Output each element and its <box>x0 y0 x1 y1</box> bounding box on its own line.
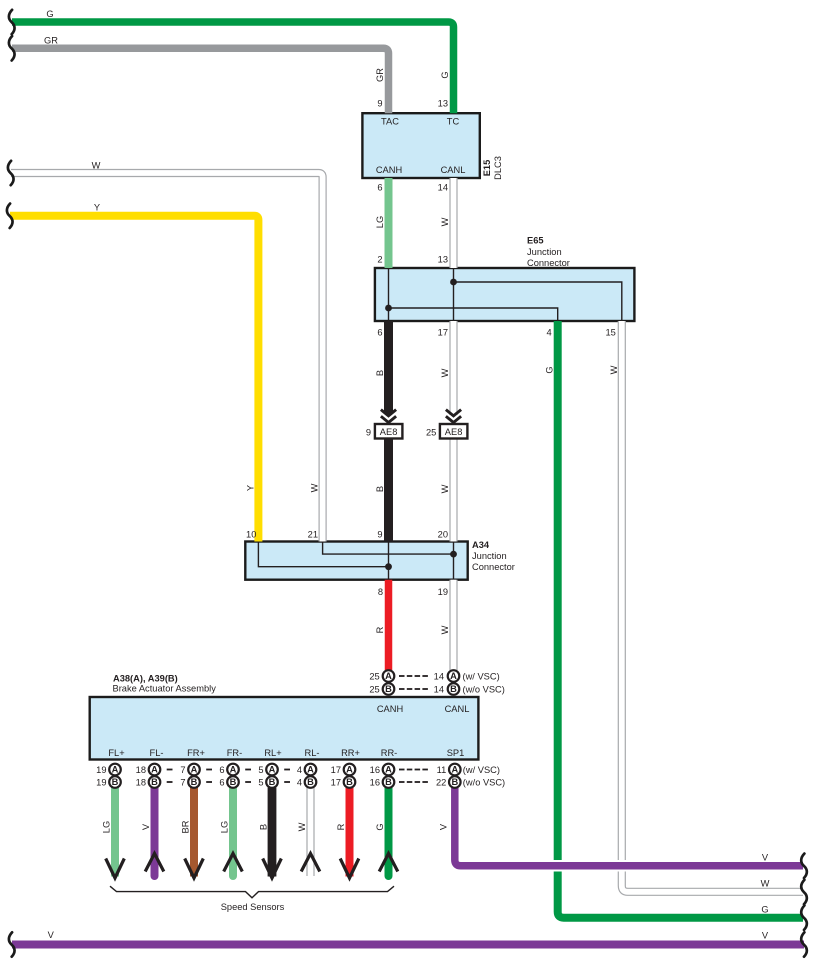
svg-text:A: A <box>450 671 457 681</box>
break symbol right (wire V bottom) <box>801 932 807 956</box>
svg-text:(w/ VSC): (w/ VSC) <box>463 765 500 775</box>
svg-text:19: 19 <box>96 765 106 775</box>
svg-text:4: 4 <box>297 765 302 775</box>
dash between RL+ and RL- (row A) <box>284 769 290 771</box>
E65 pin 4 <box>547 328 552 338</box>
terminal RR+ <box>341 748 360 758</box>
E65 pin 6 <box>377 328 382 338</box>
dash between FR+ and FR- (row B) <box>206 781 212 783</box>
svg-text:SP1: SP1 <box>447 748 465 758</box>
E15 terminal label CANL <box>441 165 466 175</box>
brake actuator pin 25 (row A) <box>369 672 379 682</box>
wire G (RR- speed sensor) <box>385 788 393 877</box>
terminal FR+ <box>187 748 205 758</box>
svg-text:11: 11 <box>437 765 447 775</box>
wire B (E65 pin 6 to shield connector AE8) <box>384 321 393 417</box>
svg-text:RR-: RR- <box>381 748 398 758</box>
label R rotated <box>375 626 385 633</box>
svg-text:A: A <box>385 671 392 681</box>
label B (AE8-A34) rotated <box>375 486 385 492</box>
E15 name DLC3 (rotated) <box>493 156 503 180</box>
pin 25-A circle (w/ VSC row) <box>383 670 395 682</box>
svg-text:18: 18 <box>136 778 146 788</box>
svg-text:Junction: Junction <box>527 247 562 257</box>
brake actuator pin 17-A (RR+) <box>331 764 356 776</box>
svg-text:17: 17 <box>331 765 341 775</box>
svg-text:TC: TC <box>447 117 460 127</box>
label wire V bottom left <box>48 930 55 940</box>
speed sensor arrow up (RR-) <box>379 854 398 872</box>
label G (RR-) rotated <box>375 823 385 830</box>
brake actuator pin 22-B (SP1) <box>436 776 461 788</box>
terminal RR- <box>381 748 398 758</box>
break symbol right (wire G) <box>801 906 807 930</box>
label W (A34-brake) rotated <box>440 625 450 634</box>
pin 14-B circle (w/o VSC row) <box>448 683 460 695</box>
speed sensor arrow down (RR+) <box>340 859 359 879</box>
brake actuator pin 14 (row B) <box>434 685 444 695</box>
speed sensor arrow up (FL-) <box>145 854 164 872</box>
svg-text:14: 14 <box>438 183 448 193</box>
wire G (top horizontal into E15 TC pin 13) <box>12 22 454 113</box>
break symbol left (wire V bottom) <box>9 932 15 956</box>
label W (left col) rotated <box>310 483 320 492</box>
svg-text:B: B <box>385 777 392 787</box>
brake actuator pin 4-B (RL-) <box>297 776 316 788</box>
A34 pin 9 <box>377 530 382 540</box>
svg-text:DLC3: DLC3 <box>493 156 503 180</box>
brake actuator terminal CANL <box>445 704 470 714</box>
terminal FR- <box>227 748 243 758</box>
shield arrow into AE8 (B wire, pin 9) <box>381 410 396 423</box>
variant note (w/o VSC) (lower row B) <box>463 778 505 788</box>
wire W (E15 CANL pin 14 to E65 pin 13) <box>449 178 457 268</box>
label wire V right <box>762 853 769 863</box>
shield connector AE8 (pin 9) box <box>375 424 403 439</box>
svg-text:W: W <box>761 878 770 888</box>
svg-text:Connector: Connector <box>472 562 515 572</box>
E65 name line 2 <box>527 258 570 268</box>
speed sensor arrow down (FL+) <box>106 859 125 879</box>
label wire G right <box>761 904 768 914</box>
svg-text:B: B <box>307 777 314 787</box>
break symbol right (wire V) <box>801 854 807 878</box>
svg-text:A: A <box>451 765 458 775</box>
svg-text:V: V <box>762 931 769 941</box>
junction connector A34 body <box>245 542 467 580</box>
svg-text:CANH: CANH <box>377 704 403 714</box>
break symbol left (wire G) <box>9 10 15 34</box>
svg-text:9: 9 <box>366 427 371 437</box>
svg-text:A: A <box>191 765 198 775</box>
label GR rotated <box>375 68 385 82</box>
svg-text:Connector: Connector <box>527 258 570 268</box>
label BR (FR+) rotated <box>181 820 191 833</box>
break symbol left (wire W) <box>8 161 14 185</box>
A34 name line 2 <box>472 562 515 572</box>
svg-text:Junction: Junction <box>472 551 507 561</box>
svg-text:E65: E65 <box>527 236 544 246</box>
svg-text:V: V <box>48 930 55 940</box>
brake actuator pin 19-B (FL+) <box>96 776 121 788</box>
brake actuator pin 16-A (RR-) <box>370 764 395 776</box>
svg-text:17: 17 <box>331 778 341 788</box>
svg-text:A: A <box>230 765 237 775</box>
A34 designator <box>472 540 490 550</box>
label R (RR+) rotated <box>336 823 346 830</box>
dashes between RR- and SP1 (row A) <box>399 769 428 771</box>
svg-text:9: 9 <box>377 530 382 540</box>
svg-text:B: B <box>451 777 458 787</box>
svg-text:RL+: RL+ <box>264 748 281 758</box>
label B (E65-AE8) rotated <box>375 370 385 376</box>
speed sensor arrow down (FR+) <box>185 859 204 879</box>
dashes between pin 25 and 14 (row A) <box>399 675 428 677</box>
svg-text:6: 6 <box>219 765 224 775</box>
break symbol left (wire Y) <box>7 204 13 228</box>
speed sensor arrow up (FR-) <box>224 854 243 872</box>
wire W (E65 pin 15 long run to right edge) <box>622 321 803 892</box>
E15 pin 14 <box>438 183 448 193</box>
wire V (bottom horizontal full width) <box>12 941 804 949</box>
svg-text:6: 6 <box>377 328 382 338</box>
svg-text:B: B <box>112 777 119 787</box>
A34 junction node pin9 bus <box>385 563 392 570</box>
brake actuator terminal CANH <box>377 704 403 714</box>
svg-text:V: V <box>762 853 769 863</box>
wire W (A34 pin 19 to brake actuator pin 14) <box>449 580 457 670</box>
E65 pin 2 <box>377 255 382 265</box>
svg-text:A38(A), A39(B): A38(A), A39(B) <box>113 674 178 684</box>
brake actuator assembly A38/A39 body <box>90 697 479 760</box>
svg-text:B: B <box>375 486 385 492</box>
label LG (FL+) rotated <box>102 821 112 833</box>
svg-text:13: 13 <box>438 255 448 265</box>
svg-text:Speed Sensors: Speed Sensors <box>221 902 285 912</box>
svg-text:R: R <box>336 823 346 830</box>
svg-text:14: 14 <box>434 685 444 695</box>
wire GR (top horizontal into E15 TAC pin 9) <box>12 48 389 113</box>
speed sensor arrow up (RL-) <box>301 854 320 872</box>
terminal SP1 <box>447 748 465 758</box>
wire W (AE8 to A34 pin 20) <box>449 439 457 542</box>
E65 pin 15 <box>605 328 615 338</box>
svg-text:13: 13 <box>438 99 448 109</box>
E15 terminal label TAC <box>381 117 399 127</box>
svg-text:LG: LG <box>375 216 385 228</box>
svg-text:5: 5 <box>258 765 263 775</box>
label V (SP1) rotated <box>439 823 449 830</box>
svg-text:B: B <box>450 684 457 694</box>
svg-text:B: B <box>230 777 237 787</box>
dash between FL- and FR+ (row A) <box>167 769 173 771</box>
A38/A39 designator <box>113 674 178 684</box>
dashes between RR- and SP1 (row B) <box>399 781 428 783</box>
brake actuator pin 5-B (RL+) <box>258 776 277 788</box>
speed sensors brace <box>110 886 394 898</box>
svg-text:FR-: FR- <box>227 748 243 758</box>
wire LG (E15 CANH pin 6 to E65 pin 2) <box>385 178 393 268</box>
wire LG (FL+ speed sensor) <box>111 788 119 877</box>
dash between FR- and RL+ (row B) <box>245 781 251 783</box>
svg-text:W: W <box>609 365 619 374</box>
break symbol left (wire GR) <box>9 36 15 60</box>
AE8 pin 25 <box>426 427 436 437</box>
brake actuator pin 5-A (RL+) <box>258 764 277 776</box>
svg-text:2: 2 <box>377 255 382 265</box>
variant note (w/ VSC) (lower row A) <box>463 765 500 775</box>
E15 pin 9 <box>377 99 382 109</box>
svg-text:AE8: AE8 <box>380 427 398 437</box>
label G rotated <box>440 71 450 78</box>
svg-text:A: A <box>151 765 158 775</box>
svg-text:B: B <box>259 824 269 830</box>
label LG (FR-) rotated <box>220 821 230 833</box>
svg-text:G: G <box>440 71 450 78</box>
svg-text:A: A <box>346 765 353 775</box>
svg-text:W: W <box>92 161 101 171</box>
A34 pin 10 <box>246 530 256 540</box>
svg-text:7: 7 <box>180 765 185 775</box>
svg-text:19: 19 <box>96 778 106 788</box>
svg-text:19: 19 <box>438 587 448 597</box>
label W (RL-) rotated <box>297 822 307 831</box>
variant note w/ VSC (row A) <box>463 672 500 682</box>
svg-text:22: 22 <box>436 778 446 788</box>
brake actuator pin 4-A (RL-) <box>297 764 316 776</box>
svg-text:RL-: RL- <box>305 748 320 758</box>
svg-text:7: 7 <box>180 778 185 788</box>
svg-text:25: 25 <box>369 685 379 695</box>
svg-text:A: A <box>307 765 314 775</box>
wire B (RL+ speed sensor) <box>268 788 277 877</box>
svg-text:E15: E15 <box>482 160 492 177</box>
wire LG (FR- speed sensor) <box>229 788 237 877</box>
svg-text:W: W <box>310 483 320 492</box>
wire W (left horizontal into A34 pin 21) <box>11 173 323 542</box>
svg-text:6: 6 <box>377 183 382 193</box>
terminal RL- <box>305 748 320 758</box>
label W (E15-E65) rotated <box>440 217 450 226</box>
svg-text:Y: Y <box>94 203 100 213</box>
label W (E65-AE8) rotated <box>440 368 450 377</box>
brake actuator pin 6-B (FR-) <box>219 776 238 788</box>
E15 pin 13 <box>438 99 448 109</box>
brake actuator pin 18-A (FL-) <box>136 764 161 776</box>
svg-text:25: 25 <box>426 427 436 437</box>
brake actuator assembly name <box>113 684 217 694</box>
E65 junction node at pin 2 bus <box>385 305 392 312</box>
label W (AE8-A34) rotated <box>440 484 450 493</box>
break symbol right (wire W) <box>801 880 807 904</box>
E65 pin 13 <box>438 255 448 265</box>
svg-text:LG: LG <box>220 821 230 833</box>
svg-text:A: A <box>112 765 119 775</box>
svg-text:R: R <box>375 626 385 633</box>
svg-text:FR+: FR+ <box>187 748 205 758</box>
label wire W right <box>761 878 770 888</box>
A34 pin 8 <box>378 587 383 597</box>
svg-text:25: 25 <box>369 672 379 682</box>
E15 terminal label TC <box>447 117 460 127</box>
svg-text:GR: GR <box>375 68 385 82</box>
svg-text:(w/ VSC): (w/ VSC) <box>463 672 500 682</box>
svg-text:15: 15 <box>605 328 615 338</box>
A34 pin 21 <box>308 530 318 540</box>
svg-text:Y: Y <box>245 485 255 491</box>
svg-text:V: V <box>141 823 151 830</box>
svg-text:G: G <box>761 904 768 914</box>
svg-text:A34: A34 <box>472 540 490 550</box>
svg-text:Brake Actuator Assembly: Brake Actuator Assembly <box>113 684 217 694</box>
svg-text:W: W <box>440 217 450 226</box>
label wire GR top <box>44 36 58 46</box>
svg-text:B: B <box>269 777 276 787</box>
label Y rotated <box>245 485 255 491</box>
E65 name line 1 <box>527 247 562 257</box>
label W (long run) rotated <box>609 365 619 374</box>
E65 designator <box>527 236 544 246</box>
svg-text:GR: GR <box>44 36 58 46</box>
svg-text:G: G <box>375 823 385 830</box>
svg-text:G: G <box>545 366 555 373</box>
svg-text:6: 6 <box>219 778 224 788</box>
brake actuator pin 19-A (FL+) <box>96 764 121 776</box>
svg-text:18: 18 <box>136 765 146 775</box>
svg-text:CANL: CANL <box>445 704 470 714</box>
terminal FL- <box>150 748 164 758</box>
svg-text:FL-: FL- <box>150 748 164 758</box>
brake actuator pin 18-B (FL-) <box>136 776 161 788</box>
E65 pin 17 <box>438 328 448 338</box>
svg-text:20: 20 <box>438 530 448 540</box>
label wire Y left <box>94 203 100 213</box>
dashes between pin 25 and 14 (row B) <box>399 688 428 690</box>
svg-text:B: B <box>191 777 198 787</box>
brake actuator pin 7-A (FR+) <box>180 764 199 776</box>
svg-text:B: B <box>346 777 353 787</box>
svg-text:LG: LG <box>102 821 112 833</box>
connector E15 (DLC3) body <box>362 113 479 178</box>
wire Y (left horizontal into A34 pin 10) <box>10 216 258 542</box>
wire B (AE8 to A34 pin 9) <box>384 439 393 542</box>
wire V (SP1 pin 11/22 down and right to right edge, crosses over G and W) <box>455 788 803 866</box>
svg-text:8: 8 <box>378 587 383 597</box>
speed sensor arrow down (RL+) <box>263 859 282 879</box>
wire BR (FR+ speed sensor) <box>190 788 198 877</box>
svg-text:4: 4 <box>547 328 552 338</box>
shield connector AE8 (pin 25) box <box>440 424 468 439</box>
brake actuator pin 16-B (RR-) <box>370 776 395 788</box>
wire W (RL- speed sensor) <box>306 788 314 877</box>
svg-text:9: 9 <box>377 99 382 109</box>
svg-text:14: 14 <box>434 672 444 682</box>
svg-text:B: B <box>375 370 385 376</box>
variant note w/o VSC (row B) <box>463 685 505 695</box>
svg-text:A: A <box>385 765 392 775</box>
svg-text:W: W <box>440 484 450 493</box>
svg-text:16: 16 <box>370 765 380 775</box>
svg-text:W: W <box>440 625 450 634</box>
E65 internal bus lines <box>389 268 622 321</box>
wire V (FL- speed sensor) <box>151 788 159 877</box>
E15 designator (rotated) <box>482 160 492 177</box>
E15 terminal label CANH <box>376 165 402 175</box>
svg-text:A: A <box>269 765 276 775</box>
wire G (E65 pin 4 long run to right edge) <box>558 321 803 918</box>
svg-text:FL+: FL+ <box>108 748 124 758</box>
dash between FL- and FR+ (row B) <box>167 781 173 783</box>
brake actuator pin 25 (row B) <box>369 685 379 695</box>
svg-text:W: W <box>297 822 307 831</box>
svg-text:CANH: CANH <box>376 165 402 175</box>
svg-text:21: 21 <box>308 530 318 540</box>
label wire G top <box>46 9 53 19</box>
brake actuator pin 11-A (SP1) <box>437 764 461 776</box>
svg-text:16: 16 <box>370 778 380 788</box>
label wire V bottom right <box>762 931 769 941</box>
brake actuator pin 17-B (RR+) <box>331 776 356 788</box>
A34 pin 20 <box>438 530 448 540</box>
brake actuator pin 14 (row A) <box>434 672 444 682</box>
svg-text:4: 4 <box>297 778 302 788</box>
label LG (E15-E65) rotated <box>375 216 385 228</box>
dash between FR- and RL+ (row A) <box>245 769 251 771</box>
shield arrow into AE8 (W wire, pin 25) <box>446 410 461 423</box>
dash between FR+ and FR- (row A) <box>206 769 212 771</box>
wire W (E65 pin 17 to shield connector AE8) <box>449 321 457 415</box>
svg-text:W: W <box>440 368 450 377</box>
label wire W left <box>92 161 101 171</box>
pin 25-B circle (w/o VSC row) <box>383 683 395 695</box>
svg-text:G: G <box>46 9 53 19</box>
terminal FL+ <box>108 748 124 758</box>
svg-text:(w/o VSC): (w/o VSC) <box>463 778 505 788</box>
brake actuator pin 6-A (FR-) <box>219 764 238 776</box>
wire R (A34 pin 8 to brake actuator pin 25) <box>385 580 393 670</box>
E65 junction node at pin 13 bus <box>450 279 457 286</box>
terminal RL+ <box>264 748 281 758</box>
junction connector E65 body <box>375 268 635 321</box>
svg-text:BR: BR <box>181 820 191 833</box>
brake actuator pin 7-B (FR+) <box>180 776 199 788</box>
svg-text:RR+: RR+ <box>341 748 360 758</box>
wire R (RR+ speed sensor) <box>346 788 354 877</box>
svg-text:B: B <box>385 684 392 694</box>
dash between RL+ and RL- (row B) <box>284 781 290 783</box>
A34 pin 19 <box>438 587 448 597</box>
svg-text:17: 17 <box>438 328 448 338</box>
svg-text:CANL: CANL <box>441 165 466 175</box>
E15 pin 6 <box>377 183 382 193</box>
label V (FL-) rotated <box>141 823 151 830</box>
speed sensors caption <box>221 902 285 912</box>
svg-text:5: 5 <box>258 778 263 788</box>
svg-text:AE8: AE8 <box>445 427 463 437</box>
svg-text:10: 10 <box>246 530 256 540</box>
A34 internal bus lines <box>258 542 453 580</box>
svg-text:V: V <box>439 823 449 830</box>
svg-text:TAC: TAC <box>381 117 399 127</box>
AE8 pin 9 <box>366 427 371 437</box>
label G (long run) rotated <box>545 366 555 373</box>
svg-text:(w/o VSC): (w/o VSC) <box>463 685 505 695</box>
label B (RL+) rotated <box>259 824 269 830</box>
pin 14-A circle (w/ VSC row) <box>448 670 460 682</box>
svg-text:B: B <box>151 777 158 787</box>
A34 name line 1 <box>472 551 507 561</box>
A34 junction node pin20 bus <box>450 551 457 558</box>
